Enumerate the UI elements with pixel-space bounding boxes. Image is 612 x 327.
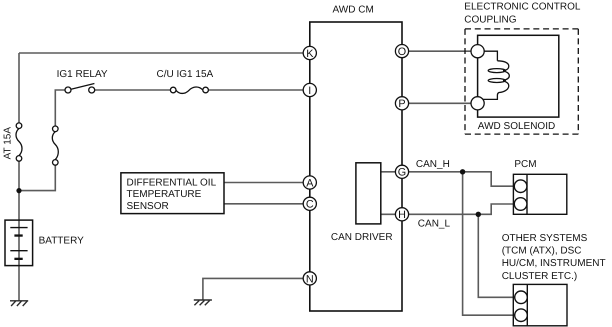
svg-text:HU/CM, INSTRUMENT: HU/CM, INSTRUMENT [502, 258, 606, 269]
svg-text:SENSOR: SENSOR [127, 201, 169, 212]
svg-text:C/U IG1 15A: C/U IG1 15A [157, 69, 214, 80]
node junction CAN_H [460, 169, 465, 174]
svg-text:K: K [306, 48, 314, 60]
svg-text:H: H [398, 209, 406, 221]
svg-text:CAN DRIVER: CAN DRIVER [331, 232, 393, 243]
pin I [303, 83, 316, 97]
battery B1 [5, 220, 33, 266]
wire [18, 53, 20, 123]
svg-text:DIFFERENTIAL OIL: DIFFERENTIAL OIL [127, 178, 217, 189]
pin P [395, 97, 408, 110]
box CAN DRIVER [356, 163, 381, 224]
box AWD CM [310, 22, 402, 311]
relay IG1 RELAY [65, 84, 95, 94]
svg-text:N: N [306, 273, 314, 285]
wire [402, 102, 478, 104]
wire [224, 203, 310, 205]
svg-text:A: A [306, 177, 314, 189]
svg-text:COUPLING: COUPLING [464, 14, 516, 25]
svg-text:CAN_H: CAN_H [416, 159, 450, 170]
wire [224, 182, 310, 184]
wire CAN_H [402, 172, 513, 186]
pin C [303, 197, 316, 211]
label DIFFERENTIAL OIL TEMPERATURE SENSOR [127, 178, 217, 212]
wire [203, 278, 310, 300]
wire [19, 52, 310, 54]
svg-text:I: I [308, 85, 311, 97]
node junction [16, 188, 21, 193]
box ELECTRONIC CONTROL COUPLING (dashed) [465, 29, 578, 134]
svg-text:OTHER SYSTEMS: OTHER SYSTEMS [502, 233, 588, 244]
pin H [395, 208, 408, 222]
solenoid terminal (bottom) [471, 97, 484, 110]
svg-text:AT 15A: AT 15A [3, 127, 14, 160]
svg-text:AWD SOLENOID: AWD SOLENOID [478, 121, 555, 132]
node junction CAN_L [476, 212, 481, 217]
wire [55, 90, 65, 126]
svg-text:O: O [398, 46, 406, 58]
wire [95, 89, 171, 91]
svg-text:PCM: PCM [514, 159, 536, 170]
svg-text:TEMPERATURE: TEMPERATURE [127, 189, 202, 200]
inductor coil L1 [483, 51, 510, 99]
ground (battery) [10, 301, 28, 306]
pin A [303, 176, 316, 190]
svg-text:BATTERY: BATTERY [39, 235, 85, 246]
label ELECTRONIC CONTROL COUPLING [464, 2, 581, 26]
svg-text:CLUSTER ETC.): CLUSTER ETC.) [502, 271, 578, 282]
svg-text:CAN_L: CAN_L [418, 218, 451, 229]
fuse C/U IG1 15A [170, 87, 208, 93]
svg-text:IG1 RELAY: IG1 RELAY [57, 69, 108, 80]
wire [381, 213, 402, 215]
pin K [303, 46, 316, 60]
wire [463, 172, 514, 315]
wire [18, 191, 20, 301]
wire [402, 50, 478, 52]
wire [208, 89, 309, 91]
wire [381, 171, 402, 173]
wire [18, 161, 20, 190]
svg-text:G: G [398, 167, 406, 179]
svg-text:AWD CM: AWD CM [333, 5, 374, 16]
label OTHER SYSTEMS (TCM (ATX), DSC HU/CM, INSTRUMENT CLUSTER ETC.) [502, 233, 606, 282]
box PCM [513, 174, 566, 214]
pin O [395, 45, 408, 59]
wire [478, 214, 513, 297]
wire [19, 165, 55, 191]
wire CAN_L [402, 204, 513, 214]
pin G [395, 165, 408, 179]
svg-text:C: C [306, 199, 314, 211]
fuse (second, below relay) [52, 126, 58, 165]
fuse AT 15A [16, 123, 22, 161]
svg-text:(TCM (ATX), DSC: (TCM (ATX), DSC [502, 246, 582, 257]
svg-text:ELECTRONIC CONTROL: ELECTRONIC CONTROL [464, 2, 581, 13]
box OTHER SYSTEMS [513, 284, 567, 325]
box AWD SOLENOID [478, 35, 559, 117]
pin N [303, 272, 316, 286]
solenoid terminal (top) [471, 45, 484, 58]
ground (pin N) [194, 300, 212, 305]
svg-text:P: P [398, 98, 405, 110]
box DIFFERENTIAL OIL TEMPERATURE SENSOR [121, 173, 224, 214]
